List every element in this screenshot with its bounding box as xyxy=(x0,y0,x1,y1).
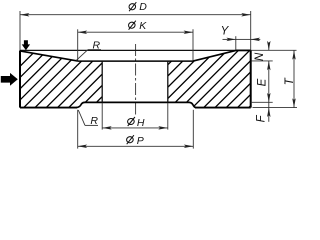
extension line top face level y=50.3 (N,T) xyxy=(251,49,297,51)
svg-text:K: K xyxy=(139,20,147,32)
extension line K left at x=77.7 xyxy=(77,29,79,60)
dimension F (recess depth) lower arrow xyxy=(268,102,270,122)
recess left fillet radius R xyxy=(77,102,85,107)
relieved face K (flat) xyxy=(78,60,193,62)
arrowhead P right xyxy=(184,145,193,149)
extension line recess floor level y=102.3 (E,F) xyxy=(251,101,273,103)
dimension line diameter H xyxy=(102,127,167,129)
hole bore right edge H xyxy=(167,61,169,102)
svg-text:T: T xyxy=(284,77,296,85)
svg-text:Y: Y xyxy=(221,25,230,37)
extension line bottom face level y=107.6 (F,T) xyxy=(253,107,298,109)
arrowhead D right xyxy=(241,13,250,17)
extension line P left at x=77.7 xyxy=(77,110,79,149)
svg-text:F: F xyxy=(256,114,268,122)
extension line left (D) at x=20 xyxy=(19,11,21,50)
extension line relieved face level y=60.9 (N,E) xyxy=(252,60,273,62)
recess floor P xyxy=(84,101,190,103)
svg-text:N: N xyxy=(254,52,266,61)
label phi P xyxy=(126,135,134,144)
dimension T (thickness) line xyxy=(293,50,295,107)
wheel top flat band Y (thick) xyxy=(236,49,251,51)
right relief slope xyxy=(193,50,236,61)
dimension line diameter P xyxy=(78,145,194,147)
dimension N (relief depth) arrow line xyxy=(268,44,270,51)
extension line right (D, Y) at x=250.7 xyxy=(250,11,252,50)
leader + label R (recess corner radius) xyxy=(78,110,85,125)
arrowhead H right xyxy=(158,126,167,129)
label phi D xyxy=(128,2,136,11)
svg-text:H: H xyxy=(137,117,145,129)
dimension line diameter K xyxy=(78,31,193,33)
wheel right edge xyxy=(250,50,252,107)
dimension line Y with outside arrows xyxy=(223,38,236,40)
leader + label R (top relief radius) xyxy=(76,50,88,61)
dimension line diameter D xyxy=(20,14,251,16)
arrowhead P left xyxy=(78,145,87,149)
hatching left section block xyxy=(0,42,320,118)
recess right fillet radius xyxy=(190,102,196,107)
thick face-indicator arrow (down, onto relief face) xyxy=(22,40,30,50)
arrowhead K left xyxy=(78,30,87,34)
label phi K xyxy=(128,21,136,30)
bottom face left segment xyxy=(20,107,77,109)
extension line H right (bore) xyxy=(167,103,169,130)
arrowhead K right xyxy=(184,30,193,34)
hole bore left edge H xyxy=(101,61,103,102)
left relief slope xyxy=(20,51,78,61)
hatching right section block xyxy=(0,42,320,118)
label phi H xyxy=(127,117,135,126)
extension line H left (bore) xyxy=(101,103,103,130)
arrowhead D left xyxy=(20,13,29,17)
dimension E line (shared with N bottom arrow and F top arrow) xyxy=(268,61,270,102)
arrowhead H left xyxy=(102,126,111,129)
svg-text:E: E xyxy=(257,78,269,86)
wheel top rim silhouette line xyxy=(20,49,251,51)
extension line K right at x=192 xyxy=(192,29,194,60)
bottom face right segment xyxy=(195,107,251,109)
arrowhead Y left (points right) xyxy=(226,38,235,42)
extension line P right at x=193.3 xyxy=(192,110,194,149)
arrowhead Y right (points left) xyxy=(251,38,260,42)
extension line Y left at x=235.8 xyxy=(235,36,237,50)
svg-text:R: R xyxy=(90,115,98,127)
svg-text:R: R xyxy=(93,40,101,52)
svg-text:D: D xyxy=(139,1,147,13)
thick face-indicator arrow (right, onto wheel periphery) xyxy=(1,73,18,86)
svg-text:P: P xyxy=(137,135,144,147)
wheel left edge xyxy=(19,50,21,107)
centerline (wheel axis, dash-dot) xyxy=(135,44,137,117)
